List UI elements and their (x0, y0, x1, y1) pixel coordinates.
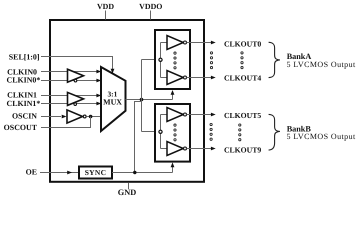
wire SYNC output (112, 172, 173, 174)
bank A inner input vertical (160, 43, 162, 78)
mux 3:1 (101, 67, 126, 131)
svg-text:VDD: VDD (97, 2, 114, 11)
wire OE (40, 172, 79, 174)
svg-text:OSCIN: OSCIN (12, 112, 37, 121)
bubble on CLKIN0* input (74, 79, 77, 82)
svg-text:5 LVCMOS Output: 5 LVCMOS Output (287, 60, 356, 69)
ellipsis dots bank A outputs col 2 (241, 52, 243, 69)
input buffer CLKIN0 (68, 69, 84, 82)
wire CLKIN1 (41, 95, 97, 97)
svg-text:CLKOUT5: CLKOUT5 (224, 111, 261, 120)
wire CLKIN0 (41, 71, 97, 73)
arrow OSCIN into osc inverter (62, 115, 67, 119)
bank A ellipsis dots (174, 52, 176, 69)
bubble bank B bottom buffer (184, 147, 187, 150)
arrow CLKIN0* into mux (96, 79, 101, 83)
brace bank A (269, 42, 280, 77)
ellipsis dots bank A outputs col 1 (210, 52, 212, 69)
arrow OE into SYNC (67, 171, 72, 175)
wire CLKOUT0 (187, 42, 212, 44)
junction dot mux output (140, 98, 144, 102)
svg-text:VDDO: VDDO (139, 2, 162, 11)
arrow CLKOUT9 (211, 147, 216, 151)
wire clock to bank A (142, 59, 160, 61)
arrow SEL into mux top (111, 69, 115, 74)
bubble on CLKIN1* input (74, 103, 77, 106)
wire CLKOUT9 (187, 148, 212, 150)
svg-text:CLKIN1*: CLKIN1* (7, 99, 41, 108)
SYNC block (79, 167, 112, 179)
ellipsis dots bank B outputs col 2 (239, 124, 241, 141)
osc inverter U1 (67, 110, 83, 123)
bank A input junction ring (159, 58, 162, 61)
arrow CLKIN1 into mux (96, 94, 101, 98)
svg-text:OSCOUT: OSCOUT (4, 123, 38, 132)
bank B stub to top buffer (161, 114, 168, 116)
wire CLKOUT4 (187, 77, 212, 79)
arrow sync into bank A bottom (171, 90, 175, 95)
wire mux output (126, 99, 173, 101)
wire sync up into bank B (172, 166, 174, 173)
bubble bank A top buffer (184, 41, 187, 44)
bubble bank A bottom buffer (184, 76, 187, 79)
input buffer CLKIN1 (68, 92, 84, 105)
bank A block (155, 30, 190, 89)
svg-text:CLKOUT9: CLKOUT9 (224, 145, 261, 154)
junction dot osc node (89, 115, 93, 119)
svg-text:OE: OE (26, 168, 37, 177)
wire sync rail up (135, 102, 142, 173)
arrow CLKOUT0 (211, 41, 216, 45)
IC outer box (50, 20, 204, 182)
svg-text:CLKIN0*: CLKIN0* (7, 75, 41, 84)
wire osc output to mux (86, 116, 101, 118)
wire sync into bank A (172, 93, 174, 100)
bank A top buffer (167, 36, 183, 50)
bank B bottom buffer (167, 142, 183, 156)
arrow CLKIN0 into mux (96, 70, 101, 74)
svg-text:CLKOUT0: CLKOUT0 (224, 39, 261, 48)
bank B ellipsis dots (174, 124, 176, 141)
ellipsis dots bank B outputs col 1 (210, 123, 212, 140)
wire OSCIN (41, 116, 61, 118)
bank B block (155, 104, 190, 162)
arrow CLKOUT4 (211, 76, 216, 80)
wire CLKIN0* (41, 80, 97, 82)
wire SEL[1:0] to mux (41, 57, 113, 71)
bank B stub to bottom buffer (161, 148, 168, 150)
svg-text:SYNC: SYNC (85, 168, 107, 177)
VDD pin stub (105, 11, 107, 20)
arrow CLKIN1* into mux (96, 102, 101, 106)
bank A stub to bottom buffer (161, 77, 168, 79)
wire CLKIN1* (41, 103, 97, 105)
arrow CLKOUT5 (211, 113, 216, 117)
bank B input junction ring (159, 130, 162, 133)
VDDO pin stub (150, 11, 152, 20)
svg-text:GND: GND (118, 188, 136, 197)
wire clock to bank B (142, 131, 160, 133)
wire OSCOUT feedback (41, 117, 91, 128)
GND pin stub (128, 183, 130, 190)
wire clock trunk vertical (141, 60, 143, 132)
bank A stub to top buffer (161, 42, 168, 44)
junction dot sync (133, 171, 136, 174)
bank B inner input vertical (160, 115, 162, 149)
svg-text:5 LVCMOS Output: 5 LVCMOS Output (287, 132, 356, 141)
bubble on osc inverter output (83, 115, 86, 118)
svg-text:SEL[1:0]: SEL[1:0] (9, 53, 40, 62)
bank A bottom buffer (167, 71, 183, 85)
bubble bank B top buffer (184, 113, 187, 116)
bank B top buffer (167, 108, 183, 122)
svg-text:CLKOUT4: CLKOUT4 (224, 74, 261, 83)
svg-text:MUX: MUX (103, 98, 122, 107)
brace bank B (269, 114, 280, 150)
wire CLKOUT5 (187, 114, 212, 116)
arrow sync into bank B bottom (171, 162, 175, 167)
